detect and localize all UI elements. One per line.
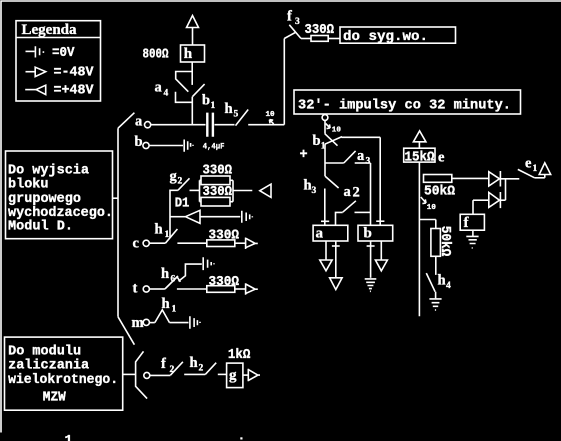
svg-text:m: m [132,315,144,331]
svg-text:800Ω: 800Ω [143,48,169,63]
svg-text:zaliczania: zaliczania [8,359,89,374]
svg-text:1: 1 [211,101,216,111]
svg-text:a: a [357,148,365,164]
svg-text:bloku: bloku [8,178,49,193]
svg-text:t: t [133,281,138,297]
svg-text:g: g [170,169,178,185]
svg-text:g: g [229,367,237,383]
svg-text:330Ω: 330Ω [209,275,240,290]
svg-text:e: e [438,150,445,166]
svg-text:Legenda: Legenda [22,22,78,38]
svg-text:3: 3 [312,186,317,196]
svg-text:330Ω: 330Ω [305,23,335,38]
svg-text:330Ω: 330Ω [203,185,233,200]
svg-text:10: 10 [427,204,437,212]
svg-text:f: f [161,356,166,372]
svg-text:=-48V: =-48V [54,66,95,81]
svg-text:2: 2 [170,365,175,375]
svg-text:=+48V: =+48V [54,84,95,99]
svg-text:3: 3 [295,17,300,27]
svg-text:h: h [304,177,312,193]
svg-text:Do wyjscia: Do wyjscia [8,163,89,178]
svg-text:a: a [155,80,163,96]
svg-text:4,4μF: 4,4μF [203,142,225,152]
svg-text:h: h [162,296,170,312]
svg-text:4: 4 [446,281,451,291]
svg-text:a: a [316,225,324,241]
svg-text:=0V: =0V [52,46,75,61]
svg-text:1kΩ: 1kΩ [228,348,251,363]
svg-text:h: h [190,355,198,371]
svg-text:330Ω: 330Ω [209,228,240,243]
svg-text:Do modulu: Do modulu [8,344,81,359]
svg-text:2: 2 [353,185,360,201]
svg-text:6: 6 [171,275,176,285]
svg-text:b: b [202,93,210,109]
svg-text:3: 3 [366,157,371,167]
svg-text:f: f [287,9,292,25]
svg-text:a: a [344,184,352,200]
svg-text:15kΩ: 15kΩ [405,150,435,165]
svg-text:h: h [438,273,446,289]
svg-text:330Ω: 330Ω [203,163,233,178]
svg-text:1: 1 [65,434,73,441]
svg-text:50kΩ: 50kΩ [437,226,452,256]
svg-text:1: 1 [172,304,177,314]
svg-text:2: 2 [178,177,183,187]
svg-text:1: 1 [533,164,538,174]
svg-text:b: b [135,134,143,150]
svg-text:5: 5 [234,110,239,120]
svg-text:h: h [155,222,163,238]
svg-text:4: 4 [164,89,169,99]
svg-text:2: 2 [199,364,204,374]
svg-text:c: c [133,236,140,252]
svg-text:+: + [300,148,308,163]
svg-text:10: 10 [332,127,342,135]
svg-text:wielokrotnego.: wielokrotnego. [8,373,118,388]
svg-text:h: h [225,101,233,117]
svg-text:e: e [525,156,532,172]
svg-text:b: b [364,225,372,241]
svg-text:D1: D1 [175,197,190,212]
svg-text:50kΩ: 50kΩ [424,184,455,199]
svg-text:10: 10 [266,111,276,119]
svg-text:1: 1 [165,230,170,240]
svg-text:a: a [135,114,143,130]
svg-text:MZW: MZW [43,391,67,406]
svg-text:32'- impulsy co 32 minuty.: 32'- impulsy co 32 minuty. [298,99,511,114]
svg-text:do syg.wo.: do syg.wo. [343,30,428,45]
svg-text:h: h [161,266,169,282]
svg-text:b: b [313,133,321,149]
svg-text:1: 1 [321,142,326,152]
svg-text:h: h [184,46,193,62]
svg-text:Modul D.: Modul D. [8,219,73,234]
